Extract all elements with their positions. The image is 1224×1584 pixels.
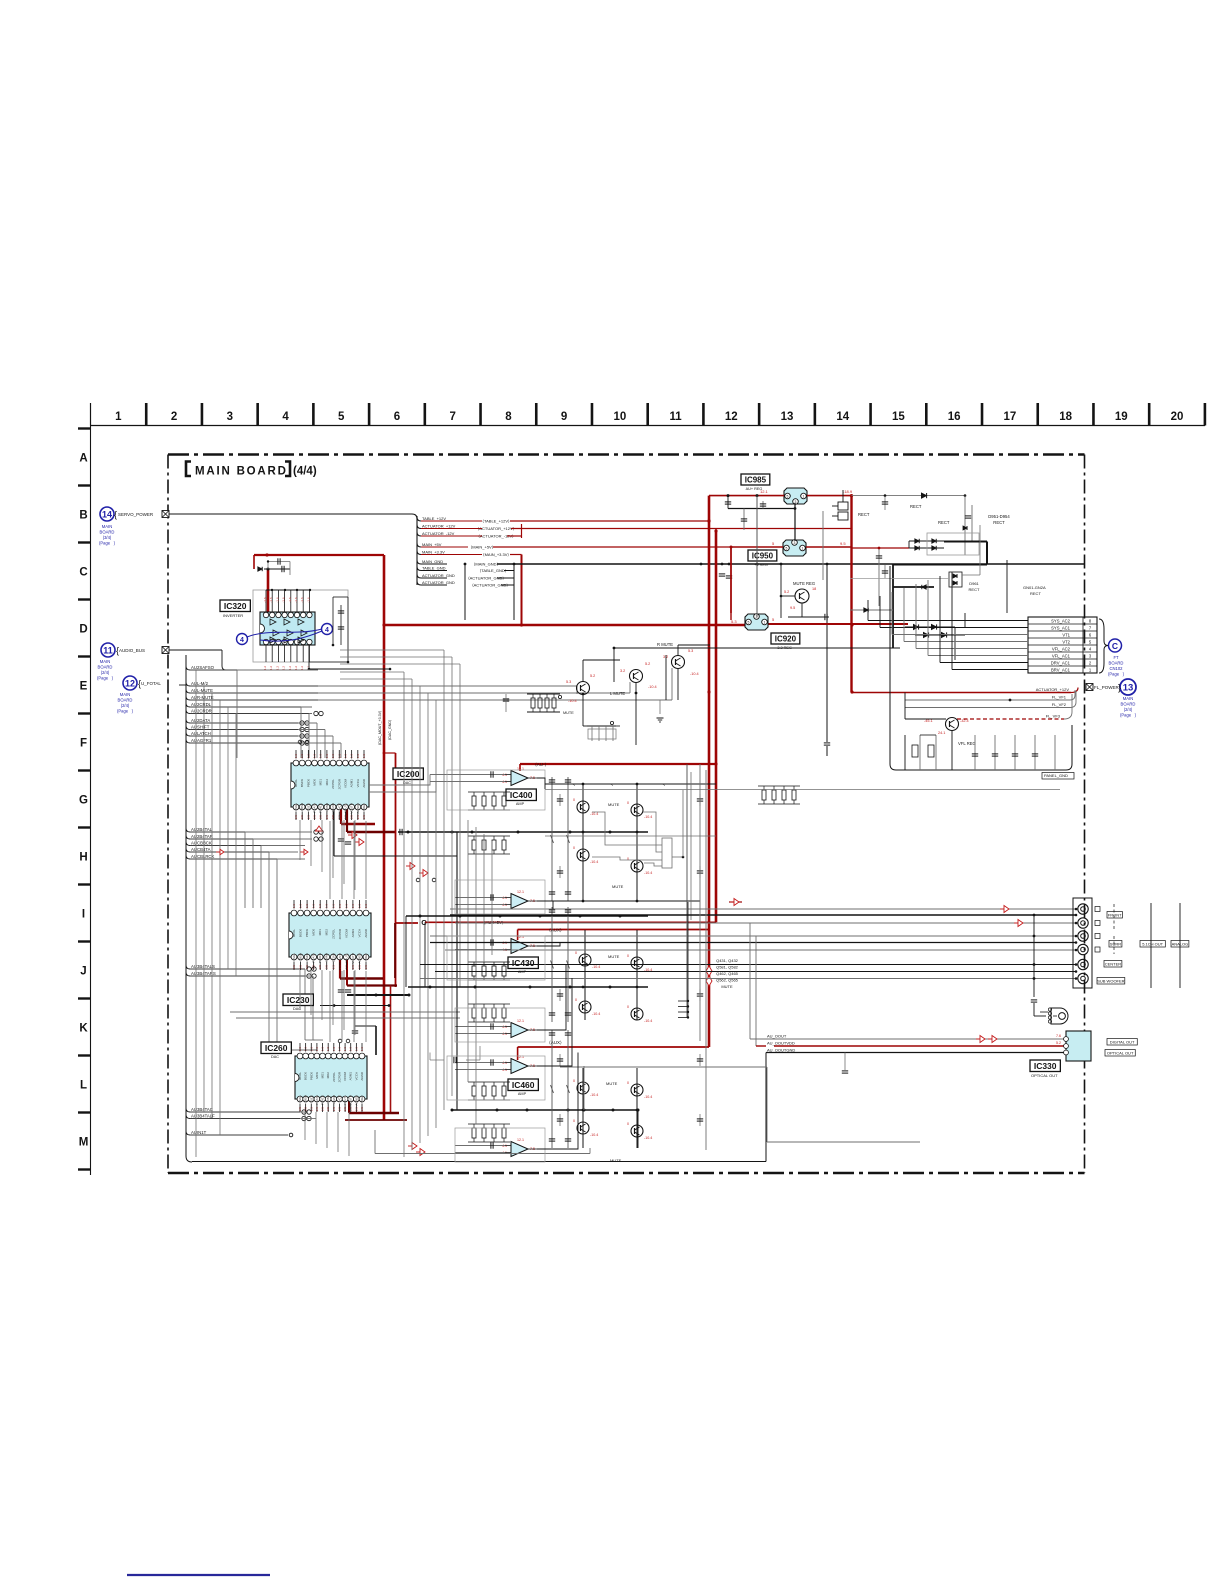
svg-text:⟨ACTUATOR_+12V⟩: ⟨ACTUATOR_+12V⟩ [478,526,515,531]
svg-text:SUB WOOFER: SUB WOOFER [1097,979,1124,984]
svg-text:3.2: 3.2 [620,669,625,673]
svg-text:12.1: 12.1 [760,489,769,494]
svg-text:1.2: 1.2 [300,666,304,671]
svg-text:DGND: DGND [332,1094,336,1104]
svg-text:VT1: VT1 [1062,632,1070,637]
svg-text:4.1: 4.1 [502,1025,507,1029]
svg-text:AUSHIFT: AUSHIFT [191,724,210,729]
svg-text:YSCK: YSCK [305,953,309,961]
svg-text:0: 0 [627,1005,629,1009]
svg-text:AU3B4TALS: AU3B4TALS [191,964,215,969]
svg-text:-45.1: -45.1 [924,719,933,723]
svg-text:1.2: 1.2 [288,666,292,671]
svg-text:K: K [79,1023,88,1035]
svg-text:MAIN_+5V: MAIN_+5V [422,542,442,547]
svg-text:0: 0 [575,998,577,1002]
svg-text:⟨DAC_MOUT_+3.3V⟩: ⟨DAC_MOUT_+3.3V⟩ [377,710,382,745]
svg-text:BSCK: BSCK [300,779,304,787]
svg-text:IC320: IC320 [224,601,247,611]
svg-text:⟨AUX⟩: ⟨AUX⟩ [549,1040,562,1045]
svg-text:-1.6: -1.6 [263,597,267,603]
svg-text:12: 12 [125,679,135,689]
svg-text:VCOM: VCOM [344,928,348,938]
svg-text:5: 5 [787,495,789,499]
svg-text:(2/4): (2/4) [1124,707,1133,712]
svg-text:(Page ): (Page ) [99,541,116,546]
svg-text:13: 13 [1123,683,1134,694]
svg-text:RECT: RECT [858,512,870,517]
svg-text:-10.4: -10.4 [590,1093,598,1097]
svg-text:4.1: 4.1 [502,1151,507,1155]
svg-text:IC920: IC920 [775,635,797,644]
svg-text:ADM1: ADM1 [350,779,354,788]
svg-text:RECT: RECT [1030,591,1041,596]
svg-text:XSGL: XSGL [292,953,296,961]
svg-text:VREF: VREF [362,803,366,811]
svg-text:-10.4: -10.4 [644,1136,652,1140]
svg-text:PANEL_GND: PANEL_GND [1044,773,1068,778]
svg-text:XBINB: XBINB [325,953,329,962]
svg-text:DGND: DGND [331,952,335,962]
svg-text:J: J [80,966,86,978]
svg-text:5.2: 5.2 [645,662,650,666]
svg-text:XBINB: XBINB [326,1095,330,1104]
svg-text:RECT: RECT [910,504,922,509]
svg-text:MAIN: MAIN [120,692,130,697]
svg-text:7.6: 7.6 [1056,1034,1061,1038]
svg-text:16: 16 [948,411,961,423]
svg-text:12: 12 [725,411,738,423]
svg-text:(3/4): (3/4) [103,535,112,540]
svg-text:I: I [82,909,85,921]
svg-text:VCOM: VCOM [343,778,347,788]
svg-text:VCCA: VCCA [356,779,360,787]
svg-text:TABLE_+12V: TABLE_+12V [422,516,446,521]
svg-text:MCK: MCK [315,1072,319,1079]
svg-text:14: 14 [102,510,112,520]
svg-text:ACTUATOR_-12V: ACTUATOR_-12V [422,531,455,536]
svg-text:ZCPDL: ZCPDL [332,1072,336,1082]
svg-text:MAIN: MAIN [1123,696,1133,701]
svg-text:19: 19 [1115,411,1128,423]
svg-text:VFL REG: VFL REG [958,741,976,746]
svg-text:0: 0 [573,1079,575,1083]
svg-text:9: 9 [561,411,567,423]
svg-text:4.1: 4.1 [502,773,507,777]
svg-text:VCC: VCC [337,1094,341,1101]
svg-text:0: 0 [627,801,629,805]
svg-text:13: 13 [781,411,794,423]
svg-text:MUTE: MUTE [563,711,574,715]
svg-text:-10.4: -10.4 [590,860,598,864]
svg-text:FRONT: FRONT [1108,913,1122,918]
svg-text:VOUTL: VOUTL [343,803,347,813]
svg-text:VFL_AC1: VFL_AC1 [1052,653,1071,658]
svg-text:⟨TABLE_GND⟩: ⟨TABLE_GND⟩ [480,568,507,573]
svg-text:MD1: MD1 [319,779,323,786]
svg-text:XBINB: XBINB [325,803,329,812]
svg-text:(2/4): (2/4) [101,670,110,675]
svg-text:-18.9: -18.9 [843,489,853,494]
svg-text:4.1: 4.1 [502,780,507,784]
svg-text:-10.4: -10.4 [568,699,577,703]
svg-text:XBSB: XBSB [300,803,304,811]
svg-text:AUL-M/2: AUL-M/2 [191,681,209,686]
svg-text:-10.4: -10.4 [644,815,652,819]
svg-text:⟨MAIN_GND⟩: ⟨MAIN_GND⟩ [474,561,499,566]
svg-text:⟨AUX⟩: ⟨AUX⟩ [549,928,562,933]
svg-text:-10.4: -10.4 [644,871,652,875]
svg-text:XSGL: XSGL [298,1095,302,1103]
svg-text:AULATCH: AULATCH [191,731,211,736]
svg-text:4: 4 [240,637,244,644]
svg-text:SERVO_POWER: SERVO_POWER [118,512,154,517]
svg-text:BOARD: BOARD [118,698,133,703]
svg-text:IC230: IC230 [287,995,310,1005]
svg-text:IC200: IC200 [397,769,420,779]
svg-text:ZCPDL: ZCPDL [331,779,335,789]
svg-text:AU3B4TALF: AU3B4TALF [191,1113,215,1118]
svg-text:SYS_AC1: SYS_AC1 [1051,625,1071,630]
svg-text:5: 5 [772,541,775,546]
svg-text:-1.6: -1.6 [275,597,279,603]
svg-text:AU_OOUT: AU_OOUT [767,1034,787,1039]
svg-text:ADM1: ADM1 [351,929,355,938]
svg-text:AUCBBCK: AUCBBCK [191,840,212,845]
svg-text:8: 8 [505,411,512,423]
svg-text:AU2DATA: AU2DATA [191,718,210,723]
svg-text:7: 7 [1089,625,1092,630]
svg-text:VT2: VT2 [1062,639,1070,644]
svg-text:(Page ): (Page ) [97,676,114,681]
svg-text:ZCPDR: ZCPDR [337,778,341,789]
svg-text:FT: FT [1113,655,1119,660]
svg-text:4.1: 4.1 [502,896,507,900]
svg-text:D951-D954: D951-D954 [988,514,1010,519]
svg-text:12.1: 12.1 [517,1138,524,1142]
svg-text:A: A [79,453,87,465]
svg-text:R MUTE: R MUTE [657,642,673,647]
svg-text:FL_VF1: FL_VF1 [1052,695,1067,700]
svg-text:12.1: 12.1 [517,767,524,771]
svg-text:AMP: AMP [518,1092,527,1096]
svg-text:(Page ): (Page ) [1120,713,1137,718]
svg-text:5: 5 [786,547,788,551]
svg-text:OPTICAL OUT: OPTICAL OUT [1031,1073,1058,1078]
svg-text:L MUTE: L MUTE [610,691,625,696]
svg-text:ACTUATOR_+12V: ACTUATOR_+12V [1036,687,1070,692]
svg-text:AGND: AGND [364,928,368,938]
svg-text:11: 11 [103,646,113,656]
svg-text:ZCPDR: ZCPDR [338,928,342,939]
svg-text:2: 2 [171,411,177,423]
svg-text:SURR: SURR [1110,942,1121,947]
svg-text:AU2SAFSO: AU2SAFSO [191,665,215,670]
svg-text:BSCK: BSCK [304,1072,308,1080]
svg-text:}: } [1118,683,1121,693]
svg-text:VCOM: VCOM [343,1071,347,1081]
svg-text:VREF: VREF [360,1095,364,1103]
svg-text:PBCK: PBCK [306,779,310,787]
svg-text:0: 0 [573,1119,575,1123]
svg-text:1: 1 [764,621,766,625]
svg-text:6: 6 [394,411,400,423]
svg-text:IC460: IC460 [512,1080,535,1090]
svg-text:1.2: 1.2 [282,666,286,671]
svg-text:MCK: MCK [313,779,317,786]
svg-text:∿: ∿ [611,783,614,787]
svg-text:4: 4 [1089,646,1092,651]
svg-text:G: G [79,795,88,807]
svg-text:5.3: 5.3 [566,680,571,684]
svg-text:H: H [79,852,87,864]
svg-text:4.1: 4.1 [502,1068,507,1072]
svg-text:12.1: 12.1 [517,1055,524,1059]
svg-text:AGND: AGND [360,1071,364,1081]
svg-text:Q431, Q432: Q431, Q432 [716,958,739,963]
svg-text:MUTE: MUTE [612,884,624,889]
svg-text:MUTE: MUTE [606,1081,618,1086]
svg-text:AUAGFR1: AUAGFR1 [191,738,212,743]
svg-text:PDATA: PDATA [312,953,316,963]
svg-text:E: E [80,681,88,693]
svg-text:⟨AU-⟩: ⟨AU-⟩ [535,762,547,767]
svg-text:-10.4: -10.4 [690,672,699,676]
svg-text:1.2: 1.2 [294,666,298,671]
svg-text:Q562, Q565: Q562, Q565 [716,978,739,983]
svg-text:VCC: VCC [338,952,342,959]
svg-text:MAIN: MAIN [102,524,112,529]
svg-text:BSCK: BSCK [299,929,303,937]
svg-text:VCC: VCC [337,802,341,809]
svg-text:(4/4): (4/4) [293,466,317,478]
svg-text:BCKL: BCKL [292,929,296,937]
svg-text:24.1: 24.1 [938,731,945,735]
svg-text:8: 8 [1089,618,1092,623]
svg-text:AU3B4TAC: AU3B4TAC [191,1107,213,1112]
svg-text:ZCPDL: ZCPDL [331,929,335,939]
svg-text:VCCA: VCCA [357,929,361,937]
svg-text:5.3: 5.3 [731,619,737,624]
svg-text:(Page ): (Page ) [1108,672,1125,677]
svg-text:AUDIO_BUS: AUDIO_BUS [119,648,145,653]
svg-text:4.1: 4.1 [502,1032,507,1036]
svg-text:7: 7 [449,411,455,423]
svg-text:XBSB: XBSB [299,953,303,961]
svg-text:B: B [79,510,87,522]
svg-text:5.3: 5.3 [688,649,693,653]
svg-text:IC950: IC950 [752,552,774,561]
svg-text:-10.4: -10.4 [644,1019,652,1023]
svg-text:MUTE: MUTE [721,984,733,989]
svg-text:FL_VF3: FL_VF3 [1046,714,1061,719]
svg-text:0: 0 [573,846,575,850]
svg-text:2: 2 [1089,660,1092,665]
svg-text:14: 14 [836,411,849,423]
svg-text:-32.4: -32.4 [960,719,969,723]
svg-text:5: 5 [748,621,750,625]
svg-text:4: 4 [282,411,289,423]
svg-text:VCCA: VCCA [354,1072,358,1080]
svg-text:ZCPDR: ZCPDR [337,1071,341,1082]
svg-text:4.1: 4.1 [502,1061,507,1065]
svg-text:5.2: 5.2 [784,590,789,594]
svg-text:∿: ∿ [573,783,576,787]
svg-text:0: 0 [575,951,577,955]
svg-text:DGND: DGND [331,802,335,812]
svg-text:OPTICAL OUT: OPTICAL OUT [1107,1051,1134,1056]
svg-text:MAIN_GND: MAIN_GND [422,559,443,564]
svg-text:MAIN_+3.3V: MAIN_+3.3V [422,549,445,554]
svg-text:MUTE: MUTE [608,802,620,807]
svg-text:1.2: 1.2 [275,666,279,671]
svg-text:TABLE_GND: TABLE_GND [422,565,446,570]
svg-text:⟨DAC_GND⟩: ⟨DAC_GND⟩ [387,719,392,740]
svg-text:5.2: 5.2 [1056,1041,1061,1045]
svg-text:CN102: CN102 [1109,666,1123,671]
svg-text:11: 11 [669,411,682,423]
svg-text:AUR-MUTE: AUR-MUTE [191,695,214,700]
svg-text:3: 3 [1089,653,1092,658]
svg-text:MD2: MD2 [325,929,329,936]
svg-text:C: C [421,918,427,927]
svg-text:CENTER: CENTER [1105,962,1122,967]
svg-text:-1.6: -1.6 [269,597,273,603]
svg-text:1: 1 [802,547,804,551]
svg-text:AU2CRDR: AU2CRDR [191,708,212,713]
svg-text:GN01-GN2A: GN01-GN2A [1023,585,1046,590]
svg-text:{: { [116,646,119,656]
svg-text:MD2: MD2 [326,1072,330,1079]
svg-text:AGND: AGND [362,778,366,788]
svg-text:BCKL: BCKL [294,779,298,787]
svg-text:AU2CRDL: AU2CRDL [191,702,212,707]
svg-text:DAC: DAC [271,1055,279,1059]
svg-text:-10.4: -10.4 [592,1012,600,1016]
svg-text:∿: ∿ [663,783,666,787]
svg-text:AUIN1T: AUIN1T [191,1130,207,1135]
svg-text:ACTUATOR_+12V: ACTUATOR_+12V [422,523,456,528]
svg-text:D: D [79,624,87,636]
svg-text:IC260: IC260 [265,1043,288,1053]
svg-text:9.5: 9.5 [790,606,795,610]
svg-text:BOARD: BOARD [1121,702,1136,707]
svg-text:AU_OOUTVDD: AU_OOUTVDD [767,1041,795,1046]
svg-text:SYS_AC2: SYS_AC2 [1051,618,1071,623]
svg-text:15: 15 [892,411,905,423]
svg-text:4.1: 4.1 [502,903,507,907]
svg-text:MAIN: MAIN [100,659,110,664]
svg-text:MD1: MD1 [321,1072,325,1079]
svg-text:RECT: RECT [938,520,950,525]
svg-text:0: 0 [627,954,629,958]
svg-text:+5 REG: +5 REG [754,563,768,567]
svg-text:YSCK: YSCK [306,803,310,811]
svg-text:IC430: IC430 [512,958,535,968]
svg-text:⟨MAIN_+3.3V⟩: ⟨MAIN_+3.3V⟩ [483,552,509,557]
svg-text:DIGITAL OUT: DIGITAL OUT [1110,1040,1135,1045]
svg-text:BOARD: BOARD [1109,661,1124,666]
svg-text:0: 0 [573,798,575,802]
svg-text:VREF: VREF [364,953,368,961]
svg-text:Q462, Q465: Q462, Q465 [716,971,739,976]
svg-text:-10.4: -10.4 [648,685,657,689]
svg-text:C: C [1112,641,1118,651]
svg-text:PDATA: PDATA [313,803,317,813]
svg-text:-1.6: -1.6 [282,597,286,603]
svg-text:9.5: 9.5 [840,541,846,546]
svg-text:3: 3 [227,411,233,423]
svg-text:-10.4: -10.4 [644,1095,652,1099]
svg-text:AU2B4TAL: AU2B4TAL [191,827,213,832]
svg-text:(Page ): (Page ) [117,709,134,714]
svg-text:1: 1 [803,495,805,499]
svg-text:12.1: 12.1 [517,1019,524,1023]
svg-text:XSGL: XSGL [294,803,298,811]
svg-text:-10.4: -10.4 [592,965,600,969]
svg-text:-10.4: -10.4 [590,812,598,816]
svg-text:D961: D961 [969,581,979,586]
svg-text:ADM1: ADM1 [349,1072,353,1081]
svg-text:FL_POWER: FL_POWER [1094,685,1120,690]
svg-text:MAIN BOARD: MAIN BOARD [195,466,288,478]
svg-text:-1.6: -1.6 [288,597,292,603]
svg-text:1: 1 [115,411,122,423]
svg-text:4.1: 4.1 [502,1144,507,1148]
svg-text:MCK: MCK [312,929,316,936]
svg-text:4: 4 [325,627,329,634]
svg-text:(2/4): (2/4) [121,703,130,708]
svg-text:INVERTER: INVERTER [223,613,243,618]
svg-text:VOUTL: VOUTL [344,953,348,963]
svg-text:5: 5 [338,411,345,423]
svg-text:Q581, Q582: Q581, Q582 [716,965,739,970]
svg-text:1.2: 1.2 [269,666,273,671]
svg-text:XBSB: XBSB [304,1095,308,1103]
svg-text:VFL_AC2: VFL_AC2 [1052,646,1071,651]
svg-text:-10.4: -10.4 [590,1133,598,1137]
svg-text:5.2: 5.2 [590,674,595,678]
svg-text:⟨MAIN_+5V⟩: ⟨MAIN_+5V⟩ [471,544,494,549]
svg-text:AUCBLRCK: AUCBLRCK [191,854,215,859]
svg-text:L: L [80,1080,87,1092]
svg-text:BOARD: BOARD [98,665,113,670]
svg-text:5.1CH OUT: 5.1CH OUT [1142,942,1163,947]
svg-text:MD2: MD2 [325,779,329,786]
svg-text:10: 10 [613,411,626,423]
svg-text:IC985: IC985 [745,476,767,485]
svg-text:-1.6: -1.6 [294,597,298,603]
svg-text:BRV_AC1: BRV_AC1 [1051,667,1071,672]
svg-text:-1.6: -1.6 [300,597,304,603]
svg-text:1.2: 1.2 [263,666,267,671]
svg-text:BCKL: BCKL [298,1072,302,1080]
svg-text:0: 0 [627,1081,629,1085]
svg-text:{: { [114,510,117,520]
svg-text:ACTUATOR_GND: ACTUATOR_GND [422,573,455,578]
svg-text:0: 0 [627,1122,629,1126]
svg-text:18: 18 [812,587,816,591]
svg-text:BOARD: BOARD [100,530,115,535]
svg-text:F: F [80,738,87,750]
svg-text:5: 5 [1089,639,1092,644]
svg-text:PBCK: PBCK [305,929,309,937]
svg-text:AUCB4TA: AUCB4TA [191,847,211,852]
svg-text:{: { [138,679,141,689]
svg-text:20: 20 [1171,411,1184,423]
svg-text:U_FOTAL: U_FOTAL [141,681,161,686]
svg-text:RECT: RECT [969,587,980,592]
